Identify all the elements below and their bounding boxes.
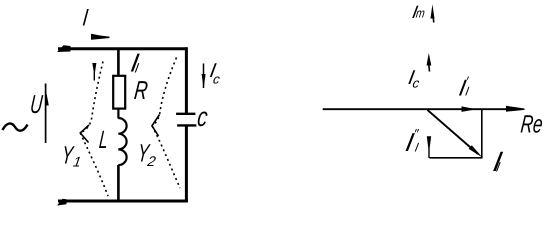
- brace Y1 upper arm (dashed): [81, 62, 103, 133]
- wire resistor to inductor: [117, 109, 119, 119]
- svg-text:Re: Re: [519, 110, 544, 138]
- current arrow I: [91, 34, 110, 40]
- wire right (upper segment to capacitor): [185, 47, 188, 113]
- axis Im arrowhead mark: [431, 4, 435, 18]
- capacitor C plates: [176, 113, 195, 115]
- vector IL diagonal: [428, 110, 479, 154]
- voltage arrow U: [45, 84, 47, 144]
- wire inductor to bottom: [117, 165, 120, 201]
- vector IL'' arrow (down, short): [427, 136, 431, 150]
- projection line horizontal: [429, 157, 482, 159]
- resistor R body: [113, 76, 125, 109]
- current arrow IL (down, left of branch): [92, 63, 96, 74]
- brace Y2 upper arm (dashed): [153, 58, 177, 126]
- projection line vertical: [481, 109, 483, 158]
- node top-left terminal arrow: [57, 45, 71, 52]
- brace Y1 lower arm (dashed): [80, 133, 108, 196]
- inductor L coil: [118, 118, 126, 165]
- axis Re: [323, 108, 520, 110]
- axis Re arrowhead: [506, 106, 525, 112]
- vector IL' arrowhead on axis: [462, 106, 478, 112]
- node bottom-left terminal arrow: [57, 199, 67, 206]
- wire right (lower segment from capacitor): [185, 126, 188, 202]
- brace Y1 cusp: [80, 125, 89, 143]
- wire bottom: [58, 200, 188, 203]
- wire middle branch stub: [117, 49, 120, 76]
- brace Y2 lower arm (dashed): [152, 126, 180, 188]
- source tilde: [3, 124, 28, 131]
- current arrow Ic (down, right of right wire): [203, 64, 205, 89]
- vector Ic arrowhead (up): [427, 53, 432, 66]
- wire top: [58, 47, 187, 50]
- brace Y2 cusp: [152, 115, 160, 137]
